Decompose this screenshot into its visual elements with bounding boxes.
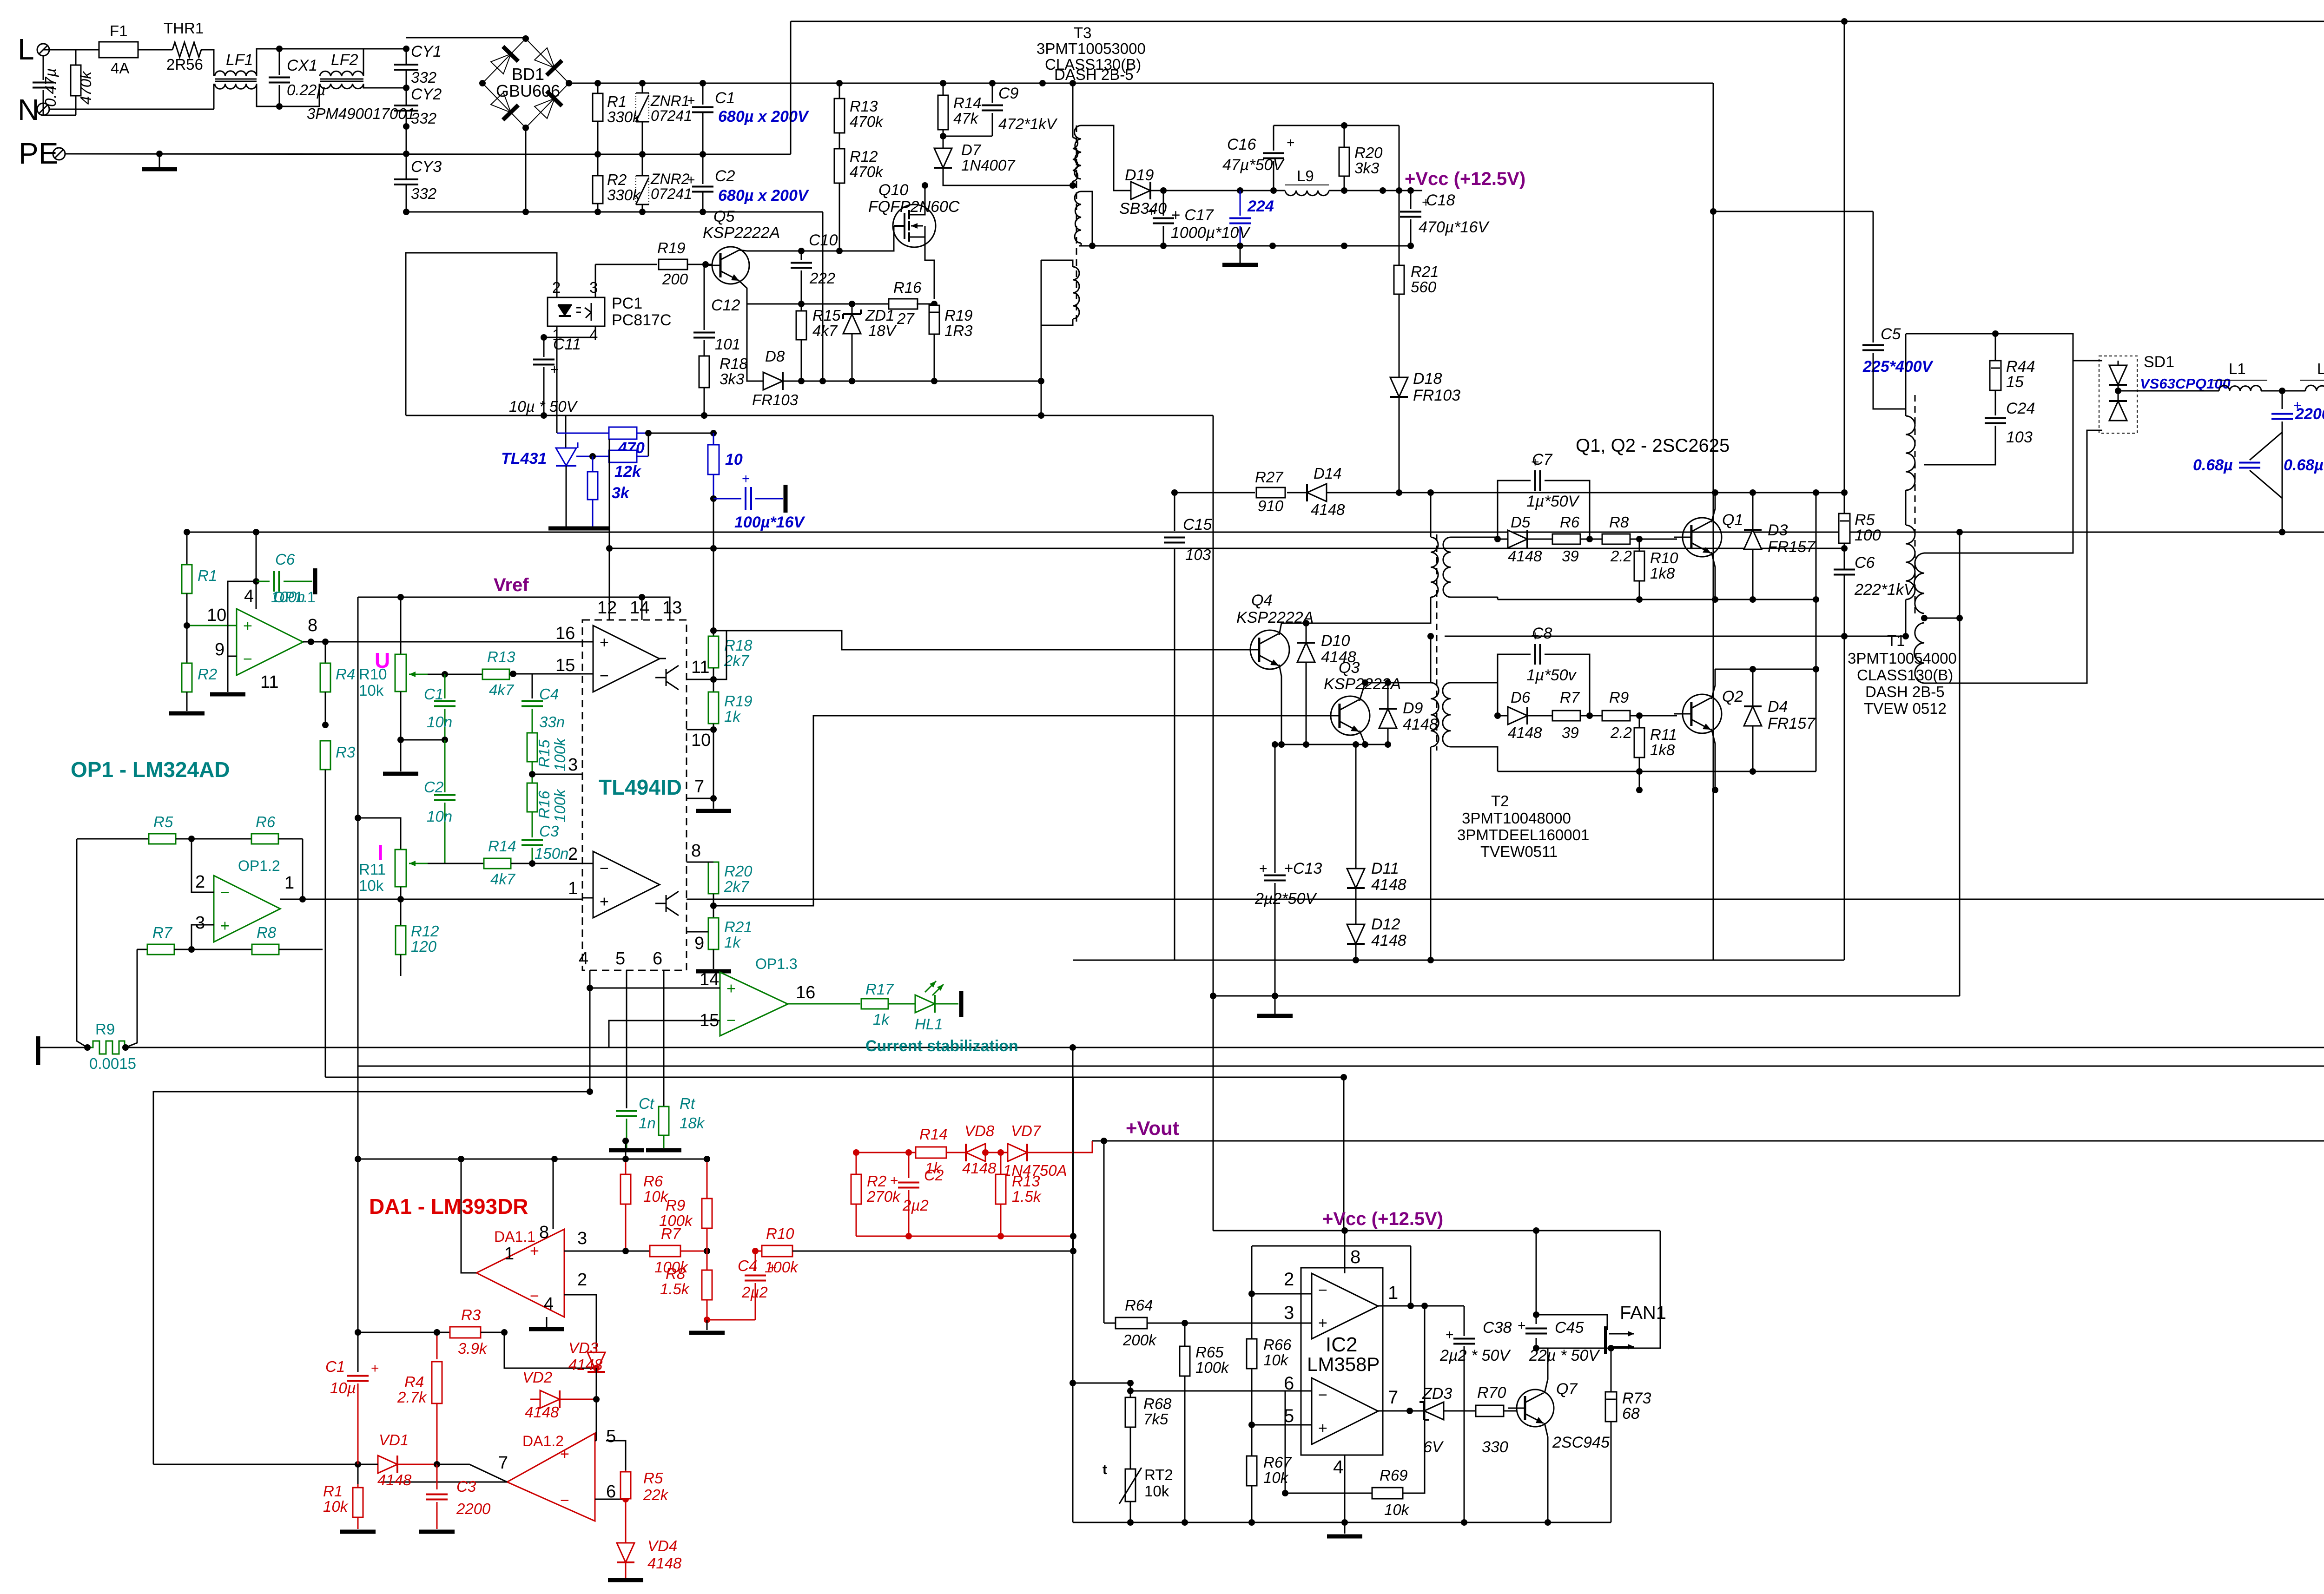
wire T1 center	[1921, 615, 1928, 621]
wire output bus A2	[687, 899, 2324, 900]
svg-text:3PMT10053000: 3PMT10053000	[1037, 40, 1146, 57]
svg-text:D8: D8	[765, 348, 785, 365]
svg-text:FR157: FR157	[1768, 715, 1816, 732]
wire	[822, 212, 824, 381]
svg-text:C4: C4	[738, 1257, 757, 1274]
resistor R27 910	[1256, 487, 1285, 498]
svg-text:TVEW 0512: TVEW 0512	[1864, 700, 1947, 717]
resistor R12 470k	[834, 149, 845, 183]
svg-text:R21: R21	[724, 918, 753, 935]
svg-text:C1: C1	[715, 89, 735, 107]
svg-text:R1: R1	[607, 93, 627, 110]
wire	[790, 21, 792, 154]
svg-text:10k: 10k	[323, 1498, 349, 1515]
svg-text:R10: R10	[766, 1225, 794, 1242]
svg-text:R9: R9	[95, 1021, 115, 1038]
svg-text:18V: 18V	[868, 322, 897, 339]
wire Q4 emitter	[1279, 665, 1281, 744]
resistor R44 15	[1906, 333, 1995, 335]
svg-text:D5: D5	[1511, 514, 1531, 531]
svg-text:R15: R15	[535, 739, 553, 768]
svg-text:R64: R64	[1125, 1297, 1153, 1314]
pin 12	[609, 548, 610, 620]
diode D6	[1498, 715, 1509, 717]
op-amp OP1.3 green	[720, 972, 788, 1036]
svg-text:R5: R5	[643, 1469, 663, 1487]
wire	[333, 597, 335, 598]
pin 8	[687, 862, 713, 863]
resistor R20 2k7 green	[713, 862, 714, 863]
inductor LF2	[320, 71, 363, 76]
svg-text:R7: R7	[1560, 689, 1580, 706]
svg-text:Q4: Q4	[1251, 592, 1272, 609]
svg-text:VD8: VD8	[964, 1122, 995, 1140]
svg-text:−: −	[560, 1492, 569, 1509]
wire	[228, 581, 256, 656]
wire	[1711, 493, 1715, 522]
wire	[187, 625, 237, 626]
resistor R2 green	[186, 626, 188, 663]
svg-text:4: 4	[1333, 1457, 1343, 1477]
svg-text:+: +	[1318, 1419, 1327, 1437]
svg-text:0.68µ: 0.68µ	[2284, 456, 2324, 474]
svg-text:8: 8	[1350, 1247, 1360, 1267]
wire red bottom	[856, 1236, 1073, 1237]
svg-text:470k: 470k	[850, 113, 884, 130]
wire pin4	[1344, 1455, 1346, 1522]
diode VD1 red	[378, 1456, 397, 1473]
capacitor C6 222	[1834, 570, 1855, 575]
diode D14	[1307, 484, 1327, 501]
diode VD8 red	[966, 1144, 985, 1161]
svg-text:TL494ID: TL494ID	[599, 775, 682, 799]
svg-text:4148: 4148	[1371, 876, 1406, 894]
svg-text:T3: T3	[1074, 24, 1092, 41]
wire	[1713, 211, 1873, 212]
resistor R6 green	[188, 836, 195, 842]
svg-text:3k3: 3k3	[1354, 159, 1380, 177]
svg-text:7k5: 7k5	[1143, 1410, 1169, 1428]
svg-text:1µ*50V: 1µ*50V	[1526, 493, 1580, 510]
pin 10	[687, 729, 713, 731]
wire	[707, 1319, 755, 1321]
svg-text:10k: 10k	[1263, 1351, 1289, 1369]
transformer T2 primary bottom	[1431, 683, 1439, 747]
svg-text:C5: C5	[1881, 325, 1901, 343]
wire	[625, 1141, 627, 1159]
svg-text:Q10: Q10	[878, 181, 908, 199]
ground	[169, 711, 205, 716]
svg-text:39: 39	[1562, 547, 1579, 565]
svg-text:DA1 - LM393DR: DA1 - LM393DR	[369, 1194, 528, 1219]
shunt R9	[36, 1036, 40, 1065]
svg-text:R2: R2	[607, 171, 627, 188]
wire output bus A	[280, 899, 582, 900]
resistor R2 red 270k	[856, 1153, 857, 1174]
svg-text:22µ * 50V: 22µ * 50V	[1529, 1347, 1600, 1364]
wire	[257, 49, 406, 76]
svg-text:15: 15	[555, 656, 575, 675]
resistor R64 200k	[1104, 1323, 1116, 1324]
pin 15	[513, 673, 593, 675]
transformer T3 primary winding	[1072, 83, 1074, 138]
diode D12	[1347, 924, 1365, 944]
svg-text:10µ * 50V: 10µ * 50V	[509, 398, 578, 415]
wire mid rail	[543, 154, 791, 155]
resistor R7 green	[137, 949, 147, 950]
svg-text:D3: D3	[1768, 521, 1788, 539]
wire	[565, 415, 567, 448]
svg-text:CY2: CY2	[411, 86, 442, 103]
svg-text:L2: L2	[2317, 360, 2324, 377]
transistor Q1	[1683, 518, 1722, 557]
svg-text:4148: 4148	[1371, 932, 1406, 949]
svg-text:+: +	[1287, 135, 1295, 151]
svg-text:Q3: Q3	[1339, 659, 1360, 677]
optocoupler PC1	[548, 297, 605, 326]
svg-text:910: 910	[1258, 497, 1284, 514]
wire pin8	[553, 1159, 554, 1229]
svg-text:10k: 10k	[1144, 1482, 1169, 1500]
svg-text:R67: R67	[1263, 1454, 1292, 1471]
pin 8	[1344, 1231, 1346, 1273]
svg-text:C18: C18	[1426, 191, 1455, 209]
svg-text:4k7: 4k7	[490, 870, 516, 888]
svg-text:TVEW0511: TVEW0511	[1480, 843, 1558, 860]
wire	[943, 182, 1073, 185]
inductor L9	[1285, 191, 1329, 196]
wire	[1873, 211, 1874, 343]
wire	[1924, 361, 2102, 553]
ground	[210, 692, 245, 697]
wire	[302, 839, 304, 899]
svg-text:C6: C6	[1855, 554, 1875, 572]
svg-text:2.2: 2.2	[1610, 724, 1632, 741]
svg-text:47µ*50V: 47µ*50V	[1222, 156, 1285, 174]
op-amp IC2a	[1312, 1273, 1378, 1339]
transistor Q7	[1517, 1390, 1554, 1427]
svg-text:4148: 4148	[525, 1403, 559, 1421]
svg-text:DASH 2B-5: DASH 2B-5	[1865, 683, 1945, 700]
diode VD4 red	[625, 1524, 627, 1543]
wire	[1536, 1348, 1611, 1349]
resistor R69 10k	[1285, 1493, 1372, 1494]
svg-text:120: 120	[411, 938, 437, 955]
svg-text:2µ2: 2µ2	[902, 1197, 929, 1214]
svg-text:10n: 10n	[427, 713, 452, 731]
resistor R4 green	[325, 642, 326, 663]
resistor R21 560	[1399, 191, 1400, 265]
wire op1.1 out	[303, 641, 325, 643]
wire -rail	[406, 211, 823, 213]
capacitor Ct green	[616, 1111, 637, 1116]
capacitor 100u16V blue	[710, 495, 717, 502]
transformer T3 aux winding bottom	[1075, 191, 1081, 243]
svg-text:R68: R68	[1143, 1395, 1172, 1412]
svg-text:4: 4	[544, 1294, 554, 1314]
capacitor CX1	[279, 49, 280, 75]
svg-text:D14: D14	[1314, 465, 1342, 482]
svg-text:C1: C1	[424, 685, 443, 703]
svg-text:R7: R7	[152, 924, 173, 941]
svg-text:224: 224	[1247, 198, 1274, 215]
resistor R1 green	[186, 532, 188, 565]
wire	[1285, 1391, 1286, 1493]
svg-text:+: +	[1518, 1318, 1526, 1333]
resistor R20 3k3	[1344, 125, 1345, 148]
svg-text:4k7: 4k7	[812, 322, 838, 339]
svg-text:100k: 100k	[551, 789, 568, 823]
ground	[609, 1148, 644, 1153]
svg-text:R9: R9	[1609, 689, 1629, 706]
svg-text:VD7: VD7	[1011, 1122, 1042, 1140]
capacitor C2 red	[908, 1153, 910, 1178]
svg-text:100: 100	[1855, 527, 1881, 544]
svg-text:D18: D18	[1413, 370, 1442, 388]
svg-text:12k: 12k	[614, 463, 642, 481]
wire	[257, 84, 319, 106]
capacitor C7	[1498, 481, 1531, 539]
svg-text:0.0015: 0.0015	[89, 1055, 136, 1072]
wire	[406, 126, 407, 179]
resistor 3k blue	[589, 453, 596, 460]
svg-text:22k: 22k	[643, 1486, 669, 1503]
svg-text:4148: 4148	[1508, 724, 1542, 741]
wire aux gnd rail	[1079, 245, 1411, 247]
svg-text:+: +	[220, 917, 230, 935]
wire	[201, 50, 214, 76]
wire	[191, 839, 214, 892]
svg-text:L9: L9	[1297, 167, 1314, 184]
svg-text:Q7: Q7	[1556, 1380, 1578, 1398]
resistor R66 10k	[1251, 1294, 1253, 1339]
wire Q4 collector	[1279, 623, 1423, 635]
pin 3	[532, 774, 582, 775]
resistor R19 1k green	[708, 692, 719, 724]
wire R27 bus	[1175, 492, 1255, 494]
svg-text:R1: R1	[323, 1482, 343, 1500]
svg-text:9: 9	[215, 640, 224, 659]
resistor R7 39	[1552, 711, 1580, 721]
pin 1	[582, 897, 593, 899]
wire	[65, 154, 543, 154]
svg-text:D4: D4	[1768, 698, 1788, 716]
diode VD7 red	[1008, 1144, 1027, 1161]
svg-text:3k3: 3k3	[720, 370, 745, 388]
svg-text:3: 3	[1284, 1303, 1294, 1323]
resistor R16 green	[527, 783, 537, 812]
wire	[525, 128, 527, 212]
wire	[125, 949, 137, 1047]
svg-text:2.2: 2.2	[1610, 547, 1632, 565]
svg-text:T2: T2	[1491, 792, 1509, 810]
svg-text:THR1: THR1	[164, 20, 204, 37]
svg-text:R10: R10	[1650, 549, 1678, 566]
svg-text:Ct: Ct	[639, 1095, 655, 1112]
wire R18 top run	[713, 631, 1220, 650]
wire	[401, 692, 445, 740]
resistor R9 red 100k	[706, 1228, 708, 1251]
wire	[153, 1464, 378, 1465]
wire Q3 emitter	[1360, 731, 1365, 744]
svg-text:33n: 33n	[539, 713, 565, 731]
svg-text:560: 560	[1411, 278, 1437, 296]
diode D18	[1390, 377, 1408, 397]
wire op1.2 out	[299, 896, 306, 902]
svg-text:10: 10	[725, 451, 743, 468]
svg-text:R13: R13	[1012, 1172, 1040, 1190]
ground	[608, 1578, 643, 1582]
wire	[1073, 1236, 1074, 1251]
svg-text:200: 200	[662, 270, 688, 288]
wire	[1430, 636, 1432, 683]
diode D9	[1387, 683, 1389, 709]
wire PC1 pin3	[595, 264, 596, 297]
wire	[1924, 430, 2102, 683]
svg-text:VD2: VD2	[522, 1369, 552, 1386]
wire	[256, 581, 257, 609]
wire	[1220, 649, 1242, 651]
svg-text:BD1: BD1	[512, 65, 544, 84]
capacitor 0.68u-1	[2250, 432, 2282, 460]
op-amp DA1.1 red	[476, 1229, 564, 1317]
svg-text:+: +	[1318, 1314, 1327, 1332]
wire	[325, 899, 326, 949]
svg-text:270k: 270k	[866, 1188, 901, 1205]
svg-text:R14: R14	[488, 837, 516, 855]
wire emitters rail	[1281, 744, 1388, 745]
svg-text:6V: 6V	[1423, 1438, 1444, 1456]
resistor R11 1k8	[1639, 716, 1640, 728]
svg-text:18k: 18k	[680, 1114, 705, 1132]
svg-text:D11: D11	[1371, 860, 1399, 877]
svg-text:2k7: 2k7	[724, 652, 750, 669]
svg-text:FR103: FR103	[752, 391, 799, 408]
resistor R68 7k5	[1130, 1383, 1131, 1397]
svg-text:CX1: CX1	[287, 57, 317, 74]
svg-text:1n: 1n	[639, 1114, 656, 1132]
svg-text:Rt: Rt	[680, 1095, 696, 1112]
svg-text:4148: 4148	[1508, 547, 1542, 565]
svg-text:SD1: SD1	[2144, 353, 2174, 371]
resistor R1 red 10k	[357, 1484, 359, 1488]
wire	[556, 415, 558, 433]
svg-text:VD3: VD3	[568, 1339, 599, 1357]
svg-text:2: 2	[195, 872, 205, 892]
svg-text:L1: L1	[2229, 360, 2246, 377]
zener ZD3	[1424, 1402, 1444, 1420]
varistor ZNR1	[642, 83, 643, 93]
capacitor C17	[1163, 191, 1164, 216]
svg-text:12: 12	[597, 598, 617, 618]
svg-text:C2: C2	[924, 1166, 944, 1184]
resistor R18 3k3	[699, 356, 709, 388]
svg-text:+: +	[1259, 861, 1268, 876]
svg-text:D10: D10	[1321, 632, 1350, 650]
resistor R8 red 1.5k	[706, 1251, 708, 1270]
svg-text:1.5k: 1.5k	[660, 1280, 690, 1298]
svg-text:103: 103	[1185, 546, 1211, 563]
resistor R10 1k8	[1639, 539, 1640, 551]
svg-text:−: −	[1318, 1386, 1327, 1404]
svg-text:L: L	[18, 33, 34, 66]
wire pin3	[1185, 1323, 1312, 1324]
svg-text:C6: C6	[275, 551, 295, 568]
svg-text:2200: 2200	[456, 1500, 491, 1517]
wire	[1711, 729, 1715, 790]
capacitor C12	[704, 264, 705, 330]
svg-text:2SC945: 2SC945	[1552, 1434, 1610, 1451]
output transistor 1	[660, 658, 666, 659]
wire	[1715, 669, 1816, 670]
ground	[1274, 996, 1276, 1014]
svg-text:07241: 07241	[651, 185, 692, 202]
wire top tie	[358, 1159, 707, 1160]
wire	[363, 84, 406, 88]
op-amp OP1.1	[237, 609, 303, 675]
svg-text:F1: F1	[110, 22, 128, 40]
wire	[400, 887, 402, 899]
wire	[713, 499, 714, 548]
wire DA1.2 out	[381, 1482, 507, 1483]
transistor Q2	[1683, 694, 1722, 733]
svg-text:ZNR2: ZNR2	[650, 171, 690, 187]
svg-text:10k: 10k	[643, 1188, 669, 1205]
thermistor THR1	[172, 42, 201, 57]
wire row1 bottom	[1498, 599, 1816, 600]
svg-text:14: 14	[630, 598, 649, 618]
svg-text:FAN1: FAN1	[1620, 1303, 1666, 1323]
svg-text:+: +	[600, 634, 609, 652]
wire	[406, 37, 526, 39]
wire	[1536, 1315, 1607, 1330]
wire	[357, 597, 359, 1372]
svg-text:0.68µ: 0.68µ	[2193, 456, 2233, 474]
pin 6	[663, 970, 665, 1107]
svg-text:470k: 470k	[850, 163, 884, 180]
svg-text:R18: R18	[724, 637, 753, 654]
svg-text:Q5: Q5	[713, 208, 734, 225]
wire	[437, 1464, 507, 1482]
wire	[1536, 1231, 1537, 1315]
svg-text:0.47µ: 0.47µ	[42, 68, 59, 107]
wire	[1399, 125, 1400, 191]
svg-text:47k: 47k	[953, 110, 979, 127]
pin 4	[589, 970, 591, 1092]
svg-text:OP1.3: OP1.3	[755, 955, 798, 972]
svg-text:2µ2: 2µ2	[741, 1284, 768, 1301]
rectifier SD1	[2099, 356, 2137, 433]
svg-text:+Vcc (+12.5V): +Vcc (+12.5V)	[1322, 1209, 1443, 1229]
wire row2 bottom	[1498, 771, 1816, 772]
wire IC2a out	[1378, 1305, 1464, 1307]
capacitor C1 green	[442, 671, 448, 678]
svg-text:100k: 100k	[551, 738, 568, 771]
svg-text:R6: R6	[256, 813, 276, 830]
svg-text:R16: R16	[893, 279, 922, 296]
resistor R15 green	[527, 733, 537, 762]
wire	[256, 532, 257, 609]
resistor R14 47k	[943, 83, 944, 95]
svg-text:C3: C3	[456, 1478, 476, 1495]
svg-text:+: +	[687, 172, 695, 188]
pin 14	[641, 597, 643, 620]
wire bus vout	[1092, 1140, 2324, 1142]
svg-text:330k: 330k	[607, 108, 641, 125]
svg-text:1k: 1k	[873, 1011, 890, 1028]
resistor R5 100	[1839, 514, 1850, 543]
capacitor C38	[1464, 1306, 1465, 1336]
